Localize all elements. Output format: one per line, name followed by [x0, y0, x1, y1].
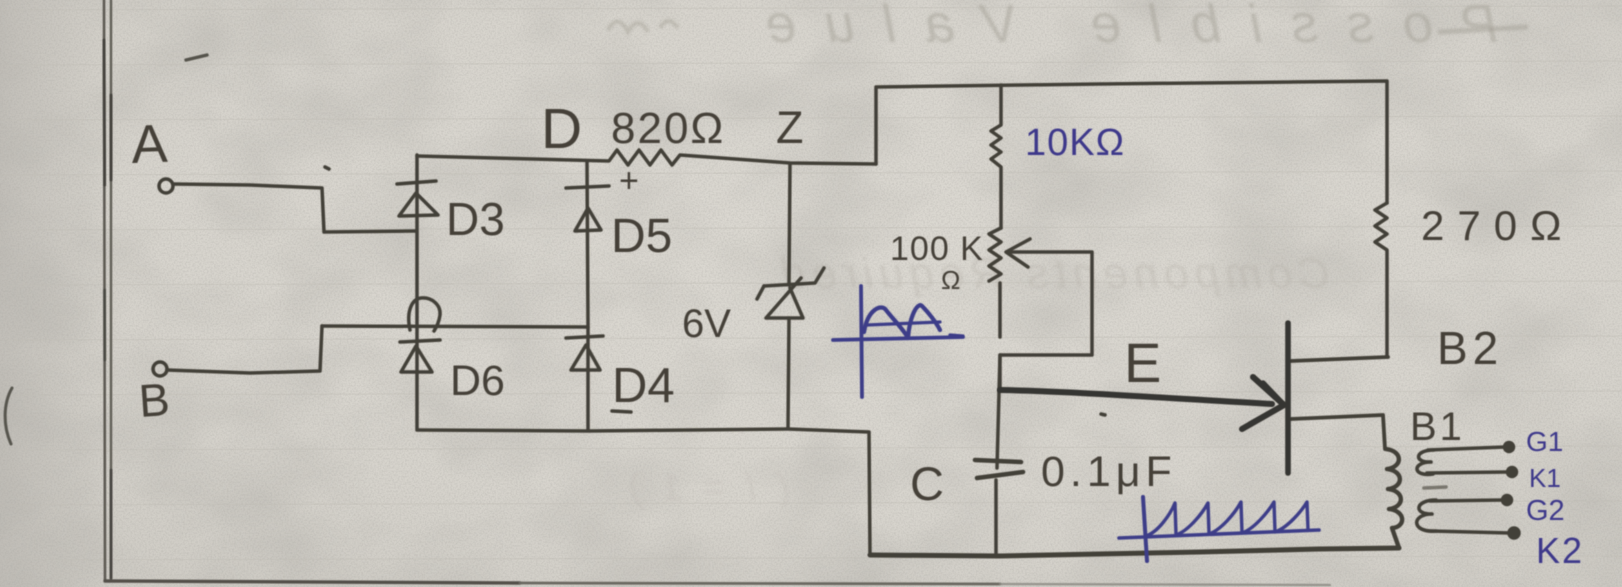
svg-text:Z: Z [776, 102, 804, 153]
svg-text:E: E [1124, 331, 1161, 394]
svg-text:G1: G1 [1526, 426, 1563, 457]
svg-text:6V: 6V [682, 302, 731, 346]
svg-text:B: B [137, 373, 171, 427]
svg-text:D6: D6 [450, 357, 505, 405]
svg-text:K1: K1 [1529, 463, 1561, 493]
svg-text:D4: D4 [612, 359, 675, 413]
svg-text:Ω: Ω [941, 265, 960, 295]
svg-text:B2: B2 [1437, 322, 1503, 374]
svg-text:D5: D5 [611, 210, 672, 263]
svg-text:0.1μF: 0.1μF [1041, 448, 1177, 496]
svg-text:+: + [619, 162, 639, 200]
svg-text:C: C [910, 457, 944, 510]
svg-text:820Ω: 820Ω [611, 104, 725, 153]
svg-text:D: D [541, 97, 582, 161]
svg-text:B1: B1 [1410, 405, 1465, 449]
svg-text:A: A [130, 114, 168, 175]
svg-text:D3: D3 [446, 193, 505, 245]
svg-text:G2: G2 [1526, 495, 1565, 527]
svg-text:( f = 1 ): ( f = 1 ) [624, 467, 790, 509]
svg-text:K2: K2 [1536, 530, 1584, 571]
svg-text:100 K: 100 K [890, 230, 984, 268]
svg-text:270Ω: 270Ω [1421, 202, 1574, 249]
svg-text:Possible Value: Possible Value [737, 0, 1498, 54]
svg-text:Components Required: Components Required [776, 249, 1330, 298]
svg-text:10KΩ: 10KΩ [1025, 122, 1125, 164]
